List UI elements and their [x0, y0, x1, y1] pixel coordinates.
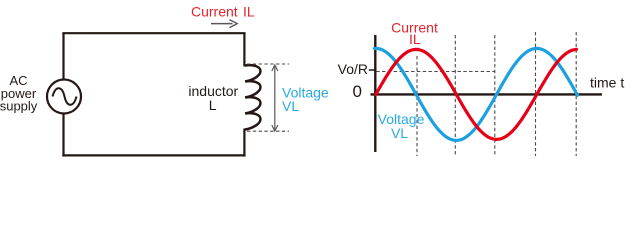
wire: left side upper segment [62, 33, 64, 80]
wire: bottom side of loop [62, 154, 245, 156]
svg-text:L: L [209, 97, 217, 113]
current IL curve (red) [376, 49, 577, 139]
voltage VL double-headed arrow [272, 65, 278, 131]
svg-text:supply: supply [0, 99, 38, 114]
current direction arrow [211, 20, 237, 28]
svg-text:IL: IL [409, 31, 421, 47]
svg-text:VL: VL [391, 125, 408, 141]
AC source: circle [47, 80, 81, 114]
tick: Vo/R level [369, 69, 376, 71]
dashed vertical: t4 (blue peak) [535, 32, 537, 156]
wire: right side lower segment [243, 129, 245, 157]
wire: left side lower segment [62, 114, 64, 157]
svg-text:Current: Current [191, 3, 238, 19]
dashed level line: Vo/R [376, 71, 495, 73]
inductor L: coil (4 loops) [245, 65, 260, 129]
dashed extent line: inductor bottom [247, 130, 289, 132]
dashed vertical: t1 (red peak) [416, 56, 418, 156]
svg-text:Vo/R: Vo/R [338, 61, 368, 77]
x-axis [371, 93, 603, 95]
wire: right side upper segment [243, 33, 245, 66]
y-axis [374, 35, 376, 152]
dashed extent line: inductor top [247, 63, 289, 65]
svg-text:IL: IL [243, 3, 255, 19]
dashed vertical: t2 [454, 35, 456, 156]
voltage VL curve (blue) [375, 48, 578, 140]
AC source: sine symbol [53, 88, 77, 105]
dashed vertical: t3 [494, 35, 496, 156]
svg-text:VL: VL [282, 98, 299, 114]
svg-text:0: 0 [353, 82, 362, 101]
wire: top side of loop [62, 32, 245, 34]
dashed vertical: t5 (red end peak) [575, 32, 577, 156]
svg-text:time t: time t [590, 75, 624, 91]
